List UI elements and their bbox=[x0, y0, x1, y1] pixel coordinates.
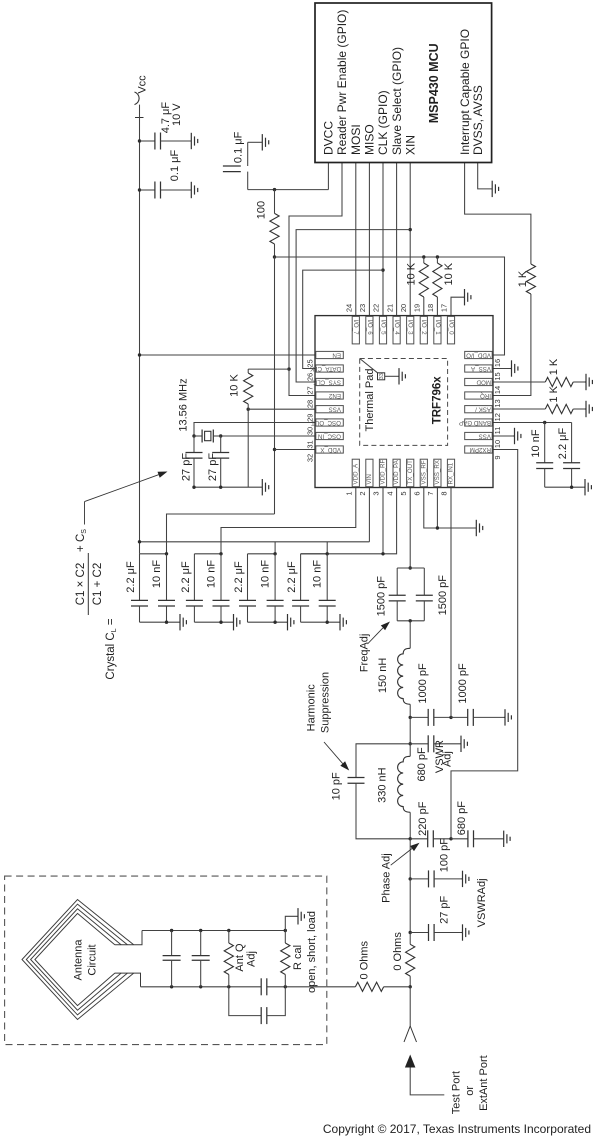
ground (DVSS) bbox=[491, 181, 498, 197]
svg-text:2.2 μF: 2.2 μF bbox=[233, 561, 245, 593]
svg-text:VDD_PA: VDD_PA bbox=[393, 459, 400, 484]
svg-text:7: 7 bbox=[426, 491, 435, 495]
node DVCC junction bbox=[273, 188, 276, 191]
node group1 feed bbox=[165, 552, 168, 555]
svg-text:27 pF: 27 pF bbox=[207, 453, 219, 481]
wire group1 top rail bbox=[140, 553, 167, 555]
svg-text:Reader Pwr Enable (GPIO): Reader Pwr Enable (GPIO) bbox=[335, 10, 349, 155]
capacitor 680pF (node D) bbox=[451, 838, 468, 840]
wire to test port bbox=[409, 987, 411, 1026]
svg-text:RX2PM: RX2PM bbox=[470, 446, 491, 453]
svg-text:1 K: 1 K bbox=[517, 270, 529, 287]
svg-text:Thermal Pad: Thermal Pad bbox=[364, 369, 376, 432]
capacitor 27pF (left) bbox=[193, 436, 195, 452]
node VDD-pin32 bbox=[273, 448, 276, 451]
capacitor 0.1uF (DVCC) bbox=[247, 142, 249, 166]
capacitor series (rail) bbox=[261, 983, 266, 991]
capacitor 4.7uF 10V bbox=[140, 140, 155, 142]
wire 1500pF bottom rail bbox=[397, 620, 424, 622]
wire MOD bbox=[493, 381, 545, 383]
resistor 10K (EN2 pulldown) bbox=[247, 369, 249, 373]
ground (680pF-2) bbox=[503, 831, 510, 847]
svg-text:EN2: EN2 bbox=[328, 392, 341, 399]
svg-text:330 nH: 330 nH bbox=[376, 767, 388, 803]
svg-text:TX_OUT: TX_OUT bbox=[407, 460, 414, 485]
wire VDD_RF bbox=[382, 488, 384, 554]
pin 15 VSS_A bbox=[465, 365, 493, 372]
node E (100pF row) bbox=[409, 877, 412, 880]
svg-text:ExtAnt Port: ExtAnt Port bbox=[478, 1055, 490, 1111]
ground (27pF) bbox=[462, 924, 469, 940]
node group4 bottom bbox=[326, 621, 329, 624]
wire group2 bottom rail bbox=[194, 621, 232, 623]
wire A to B bbox=[409, 717, 411, 743]
svg-text:Ant Q: Ant Q bbox=[234, 943, 246, 972]
pin 21 I/O_4 bbox=[393, 316, 400, 344]
ground (thermal pad) bbox=[398, 368, 405, 384]
wire XIN to I/O_4 bbox=[409, 163, 411, 316]
svg-text:or: or bbox=[464, 1086, 476, 1096]
svg-text:Copyright © 2017, Texas Instru: Copyright © 2017, Texas Instruments Inco… bbox=[323, 1122, 591, 1136]
antenna circuit dashed box bbox=[5, 876, 327, 1045]
node xtal rail right bbox=[219, 486, 222, 489]
svg-text:10 K: 10 K bbox=[229, 374, 241, 397]
wire VSS pin10 to ground bbox=[493, 435, 514, 437]
wire group3 bottom rail bbox=[248, 621, 287, 623]
ground (BAND_GAP) bbox=[584, 479, 592, 495]
svg-text:VSS_RX: VSS_RX bbox=[434, 460, 441, 484]
node VSS_RX bbox=[436, 526, 439, 529]
svg-text:1: 1 bbox=[345, 491, 354, 495]
wire C to E bbox=[409, 839, 411, 879]
svg-text:3: 3 bbox=[372, 491, 381, 495]
svg-text:I/O_6: I/O_6 bbox=[366, 320, 373, 336]
inductor 150nH bbox=[409, 621, 411, 649]
ground (group1) bbox=[179, 614, 186, 630]
wire XIN to SYS_CLK pin 27 bbox=[296, 230, 410, 382]
wire group1 bottom rail bbox=[140, 621, 180, 623]
svg-text:SYS_CLK: SYS_CLK bbox=[312, 378, 341, 385]
wire I/O_0 to ground bbox=[451, 297, 464, 315]
pin 28 EN2 bbox=[316, 392, 344, 399]
svg-text:0 Ohms: 0 Ohms bbox=[392, 932, 404, 971]
svg-text:OSC_IN: OSC_IN bbox=[318, 432, 341, 439]
svg-text:16: 16 bbox=[493, 359, 502, 367]
capacitor 2.2uF (group4) bbox=[300, 554, 302, 601]
svg-text:2.2 μF: 2.2 μF bbox=[286, 561, 298, 593]
ground (VSS_A) bbox=[511, 360, 518, 376]
wire VSS_RX bbox=[436, 488, 438, 529]
svg-text:VDD_X: VDD_X bbox=[320, 446, 341, 453]
svg-text:FreqAdj: FreqAdj bbox=[359, 634, 371, 673]
arrow to 10pF bbox=[340, 761, 349, 770]
resistor Ant Q Adj bbox=[227, 929, 230, 932]
node crystal left bbox=[192, 434, 195, 437]
pin 20 I/O_3 bbox=[407, 316, 414, 344]
ground (4.7uF) bbox=[190, 133, 197, 149]
capacitor 27pF (VSWRAdj) bbox=[410, 932, 428, 934]
resistor R cal bbox=[284, 929, 287, 932]
node VDD junction bbox=[273, 255, 276, 258]
svg-text:10 nF: 10 nF bbox=[260, 560, 272, 588]
svg-text:15: 15 bbox=[493, 372, 502, 380]
wire Vcc rail to VIN bbox=[140, 541, 370, 543]
antenna coil bbox=[22, 900, 134, 1020]
wire group3 top rail bbox=[248, 553, 276, 555]
svg-text:TRF796x: TRF796x bbox=[431, 376, 443, 425]
svg-text:I/O_1: I/O_1 bbox=[434, 320, 441, 336]
svg-text:2.2 μF: 2.2 μF bbox=[557, 428, 569, 460]
wire MISO bbox=[368, 163, 370, 316]
svg-text:680 pF: 680 pF bbox=[456, 801, 468, 836]
resistor 100 bbox=[274, 190, 276, 214]
pin 8 RX_IN1 bbox=[447, 459, 454, 487]
svg-text:1000 pF: 1000 pF bbox=[457, 663, 469, 704]
svg-text:I/O_2: I/O_2 bbox=[420, 320, 427, 336]
wire ASK/OOK bbox=[493, 408, 545, 410]
svg-text:VDD_RF: VDD_RF bbox=[380, 460, 387, 485]
pin 7 VSS_RX bbox=[434, 459, 441, 487]
svg-text:10 K: 10 K bbox=[406, 262, 418, 285]
node G (antenna feed) bbox=[409, 985, 412, 988]
node Vcc-C1 bbox=[138, 139, 141, 142]
wire VDD_PA bbox=[301, 488, 397, 554]
svg-text:10 K: 10 K bbox=[443, 262, 455, 285]
capacitor 1500pF (left) bbox=[396, 568, 398, 595]
capacitor 27pF (right) bbox=[220, 436, 222, 452]
wire VDD bus to pullups and VDD_I/O bbox=[275, 257, 505, 355]
svg-text:1 K: 1 K bbox=[548, 358, 560, 375]
wire to pin 32 VDD_X bbox=[275, 449, 316, 451]
svg-text:Crystal CL =: Crystal CL = bbox=[105, 618, 118, 679]
svg-text:1000 pF: 1000 pF bbox=[417, 663, 429, 704]
capacitor 10nF (group1) bbox=[166, 554, 168, 601]
svg-text:13.56 MHz: 13.56 MHz bbox=[178, 378, 190, 431]
wire VSS_RF to ground bbox=[424, 488, 476, 529]
capacitor 2.2uF (group3) bbox=[247, 554, 249, 601]
pin 26 DATA_CLK bbox=[316, 365, 344, 372]
pin 14 MOD bbox=[465, 378, 493, 385]
wire group4 bottom rail bbox=[301, 621, 339, 623]
node group1 bottom bbox=[165, 621, 168, 624]
wire antenna rail to ground bbox=[285, 916, 297, 930]
node Vcc-C2 bbox=[138, 188, 141, 191]
capacitor 0.1uF (Vcc) bbox=[140, 189, 155, 191]
svg-text:20: 20 bbox=[399, 304, 408, 312]
svg-text:Test Port: Test Port bbox=[451, 1071, 463, 1114]
wire BAND_GAP bbox=[493, 422, 572, 424]
wire group2 top rail bbox=[194, 553, 221, 555]
wire VIN bbox=[368, 488, 370, 542]
Vcc power connector bbox=[135, 92, 140, 105]
node C (phase row) bbox=[409, 837, 412, 840]
svg-text:VSS: VSS bbox=[329, 406, 341, 413]
svg-text:Interrupt Capable GPIO: Interrupt Capable GPIO bbox=[458, 29, 472, 155]
svg-text:MSP430 MCU: MSP430 MCU bbox=[427, 43, 441, 123]
svg-text:10 V: 10 V bbox=[171, 103, 183, 126]
capacitor antenna tune x171.6 bbox=[170, 929, 173, 932]
wire 1K to IRQ pin 13 bbox=[493, 294, 531, 396]
ground (VSS_RF/RX) bbox=[475, 520, 482, 536]
thermal pad pin 33 bbox=[360, 359, 378, 373]
svg-text:2.2 μF: 2.2 μF bbox=[125, 561, 137, 593]
svg-text:EN: EN bbox=[332, 351, 341, 358]
node crystal right bbox=[219, 434, 222, 437]
node 10K-1 top bbox=[422, 255, 425, 258]
pin 19 I/O_2 bbox=[420, 316, 427, 344]
svg-text:30: 30 bbox=[306, 427, 315, 435]
svg-text:19: 19 bbox=[413, 304, 422, 312]
node TX_OUT bbox=[409, 566, 412, 569]
capacitor 2.2uF (group1) bbox=[139, 554, 141, 601]
svg-text:Antenna: Antenna bbox=[73, 939, 85, 981]
capacitor 1500pF (right) bbox=[423, 568, 425, 595]
svg-text:VSWRAdj: VSWRAdj bbox=[476, 878, 488, 927]
svg-text:VDD_I/O: VDD_I/O bbox=[466, 351, 491, 358]
capacitor antenna tune x200.7 bbox=[199, 929, 202, 932]
wire 10K to pin 29 VSS bbox=[247, 404, 249, 409]
svg-text:CLK (GPIO): CLK (GPIO) bbox=[376, 90, 390, 155]
wire MOSI bbox=[355, 163, 357, 316]
capacitor 10nF (group4) bbox=[326, 554, 328, 601]
svg-text:I/O_0: I/O_0 bbox=[447, 320, 454, 336]
wire group4 top rail bbox=[301, 553, 328, 555]
pin 5 TX_OUT bbox=[407, 459, 414, 487]
pin 25 EN bbox=[316, 351, 344, 358]
node B (680pF row) bbox=[409, 742, 412, 745]
ground (MOD) bbox=[585, 374, 592, 390]
pin 30 OSC_OUT bbox=[316, 419, 344, 426]
pin 32 VDD_X bbox=[316, 446, 344, 453]
wire pad to ground bbox=[385, 375, 398, 377]
ground (group3) bbox=[287, 614, 294, 630]
pin 6 VSS_RF bbox=[420, 459, 427, 487]
wire E to F bbox=[409, 879, 411, 933]
svg-text:28: 28 bbox=[306, 400, 315, 408]
wire Vcc vertical rail bbox=[139, 105, 141, 554]
pin 2 VIN bbox=[366, 459, 373, 487]
ground (I/O_0) bbox=[464, 289, 471, 305]
svg-text:10: 10 bbox=[493, 440, 502, 448]
svg-text:C1 × C2: C1 × C2 bbox=[75, 563, 87, 606]
pin 18 I/O_1 bbox=[434, 316, 441, 344]
node BAND_GAP bbox=[543, 421, 546, 424]
node group3 feed bbox=[273, 552, 276, 555]
svg-text:MOSI: MOSI bbox=[349, 124, 363, 155]
svg-text:2: 2 bbox=[358, 491, 367, 495]
capacitor 10nF (group3) bbox=[274, 554, 276, 601]
svg-text:6: 6 bbox=[413, 491, 422, 495]
capacitor series (loop) bbox=[229, 987, 261, 1016]
svg-text:I/O_4: I/O_4 bbox=[393, 320, 400, 336]
node A (1000pF row) bbox=[409, 716, 412, 719]
ground (100pF) bbox=[462, 871, 469, 887]
pin 27 SYS_CLK bbox=[316, 378, 344, 385]
wire antenna bottom rail bbox=[141, 986, 327, 988]
node group2 feed bbox=[219, 552, 222, 555]
svg-text:VDD_A: VDD_A bbox=[352, 463, 359, 485]
svg-text:Adj: Adj bbox=[442, 751, 454, 767]
node F (27pF row) bbox=[409, 931, 412, 934]
capacitor 2.2uF (group2) bbox=[193, 554, 195, 601]
svg-text:+ CS: + CS bbox=[75, 529, 88, 552]
svg-text:4: 4 bbox=[385, 491, 394, 495]
svg-text:220 pF: 220 pF bbox=[417, 801, 429, 836]
node EN2 junction bbox=[287, 367, 290, 370]
svg-text:9: 9 bbox=[493, 455, 502, 459]
pin 1 VDD_A bbox=[352, 459, 359, 487]
svg-text:2.2 μF: 2.2 μF bbox=[180, 561, 192, 593]
pin 10 VSS bbox=[465, 432, 493, 439]
ground (group4) bbox=[339, 614, 346, 630]
svg-text:VSS_A: VSS_A bbox=[470, 365, 491, 372]
svg-text:I/O_7: I/O_7 bbox=[352, 320, 359, 336]
capacitor 2.2uF (BAND_GAP) bbox=[571, 423, 573, 463]
inductor 330nH bbox=[409, 744, 411, 757]
crystal 13.56 MHz bbox=[194, 435, 202, 437]
resistor 1K (ASK/OOK) bbox=[545, 404, 573, 413]
svg-text:10 nF: 10 nF bbox=[206, 560, 218, 588]
node xtal rail left bbox=[192, 486, 195, 489]
capacitor 1000pF (left) bbox=[410, 716, 428, 718]
svg-text:27: 27 bbox=[306, 386, 315, 394]
ground (0.1uF DVCC) bbox=[261, 134, 268, 150]
svg-text:DVSS, AVSS: DVSS, AVSS bbox=[471, 85, 485, 155]
wire 1500pF top rail bbox=[397, 567, 424, 569]
wire EN to Vcc bbox=[140, 354, 316, 356]
svg-text:11: 11 bbox=[493, 427, 502, 435]
svg-text:BAND GAP: BAND GAP bbox=[459, 419, 491, 426]
pin 13 IRQ bbox=[465, 392, 493, 399]
capacitor 1000pF (right) bbox=[451, 716, 468, 718]
capacitor 680pF (VSWR Adj) bbox=[410, 743, 428, 745]
svg-text:100: 100 bbox=[256, 201, 268, 219]
pin 11 BAND GAP bbox=[465, 419, 493, 426]
wire crystal ground rail bbox=[194, 486, 261, 488]
svg-text:MISO: MISO bbox=[363, 124, 377, 155]
pin 22 I/O_5 bbox=[379, 316, 386, 344]
svg-text:27 pF: 27 pF bbox=[438, 895, 450, 923]
wire VDD to group1 bbox=[167, 514, 275, 554]
svg-text:1 K: 1 K bbox=[548, 385, 560, 402]
pin 31 OSC_IN bbox=[316, 432, 344, 439]
svg-text:10 pF: 10 pF bbox=[331, 772, 343, 800]
svg-text:Vcc: Vcc bbox=[137, 75, 149, 94]
node 10K-VSS bbox=[247, 408, 250, 411]
svg-text:1500 pF: 1500 pF bbox=[437, 575, 449, 616]
wire TX_OUT bbox=[409, 488, 411, 569]
wire EN2 to pin 28 bbox=[289, 369, 315, 395]
pin 12 ASK / bbox=[465, 406, 493, 413]
resistor 10K (I/O_2 pullup) bbox=[423, 257, 425, 263]
svg-text:31: 31 bbox=[306, 440, 315, 448]
svg-text:24: 24 bbox=[345, 304, 354, 312]
node EN-Vcc bbox=[138, 353, 141, 356]
wire 10K bottom to ground rail bbox=[247, 409, 249, 487]
ground (crystal) bbox=[261, 479, 268, 495]
svg-text:R cal: R cal bbox=[292, 945, 304, 970]
svg-text:10 nF: 10 nF bbox=[151, 560, 163, 588]
wire MOD-R to ground bbox=[573, 381, 585, 383]
ground (0.1uF Vcc) bbox=[190, 182, 197, 198]
wire antenna top rail bbox=[142, 930, 285, 932]
svg-text:10 nF: 10 nF bbox=[530, 429, 542, 457]
svg-text:150 nH: 150 nH bbox=[377, 658, 389, 694]
svg-text:0 Ohms: 0 Ohms bbox=[358, 940, 370, 979]
wire Reader Pwr Enable to EN2 net bbox=[289, 163, 342, 370]
svg-text:680 pF: 680 pF bbox=[416, 747, 428, 782]
pin 9 RX2PM bbox=[465, 446, 493, 453]
resistor 10K (I/O_1 pullup) bbox=[436, 257, 438, 263]
resistor 0 Ohms (vertical) bbox=[409, 933, 411, 945]
node 1500pF bottom bbox=[409, 619, 412, 622]
thermal pad dashed box bbox=[360, 359, 448, 446]
capacitor 10pF (harmonic) bbox=[356, 744, 410, 778]
wire OSC_OUT bbox=[194, 423, 315, 437]
wire ASK-R to ground bbox=[573, 408, 585, 410]
svg-text:Circuit: Circuit bbox=[87, 944, 99, 975]
wire antenna lower feed bbox=[115, 973, 141, 987]
svg-text:Suppression: Suppression bbox=[319, 672, 331, 733]
svg-text:23: 23 bbox=[358, 304, 367, 312]
svg-text:open, short, load: open, short, load bbox=[306, 911, 318, 993]
test port connector chevron bbox=[404, 1026, 410, 1042]
svg-text:VSS_RF: VSS_RF bbox=[420, 460, 427, 484]
pin 23 I/O_6 bbox=[366, 316, 373, 344]
wire DVSS AVSS to ground bbox=[478, 163, 492, 189]
node group4 feed bbox=[326, 552, 329, 555]
node 10K-2 top bbox=[436, 255, 439, 258]
svg-text:0.1 μF: 0.1 μF bbox=[169, 150, 181, 182]
node group2 bottom bbox=[219, 621, 222, 624]
wire RX_IN2 bbox=[451, 450, 518, 839]
wire VDD_A to group2 bbox=[221, 488, 356, 554]
svg-text:1500 pF: 1500 pF bbox=[375, 576, 387, 617]
wire Slave Select bbox=[396, 163, 398, 316]
svg-text:Harmonic: Harmonic bbox=[306, 684, 318, 732]
node Vcc rail bbox=[138, 540, 141, 543]
wire DVCC net bbox=[248, 189, 329, 191]
svg-text:14: 14 bbox=[493, 386, 502, 394]
resistor 1K (IRQ series) bbox=[526, 264, 535, 294]
wire CLK to I/O_5 bbox=[382, 163, 384, 316]
node VDD_RF join bbox=[381, 552, 384, 555]
svg-text:DATA_CLK: DATA_CLK bbox=[309, 365, 341, 372]
wire OSC_IN bbox=[221, 435, 315, 437]
wire EN2 to 10K bbox=[248, 368, 289, 370]
svg-text:VIN: VIN bbox=[366, 474, 373, 484]
node BAND rail bbox=[570, 486, 573, 489]
svg-text:18: 18 bbox=[426, 304, 435, 312]
svg-text:8: 8 bbox=[440, 491, 449, 495]
svg-text:33: 33 bbox=[379, 373, 385, 379]
ground (VSS pin10) bbox=[514, 428, 521, 444]
capacitor 100pF bbox=[410, 878, 428, 880]
wire antenna upper feed bbox=[115, 931, 142, 945]
svg-text:5: 5 bbox=[399, 491, 408, 495]
wire DVCC stub from MSP430 bbox=[327, 163, 329, 190]
svg-text:MOD: MOD bbox=[476, 378, 491, 385]
svg-text:I/O_3: I/O_3 bbox=[407, 320, 414, 336]
wire RX_IN1 bbox=[450, 488, 452, 718]
arrow formula to 27pF caps bbox=[84, 502, 86, 525]
resistor 1K (MOD) bbox=[545, 377, 573, 386]
ground (antenna) bbox=[297, 908, 304, 924]
pin 24 I/O_7 bbox=[352, 316, 359, 344]
node CLK branch bbox=[381, 268, 384, 271]
svg-text:32: 32 bbox=[306, 454, 315, 462]
svg-text:ASK /: ASK / bbox=[475, 406, 491, 413]
